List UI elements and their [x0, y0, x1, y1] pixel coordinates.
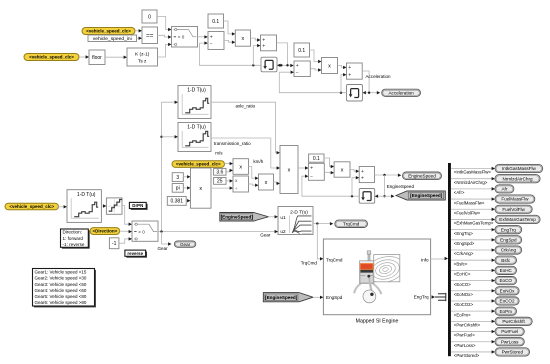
svg-text:floor: floor — [92, 55, 102, 61]
svg-text:TrqCmd: TrqCmd — [301, 261, 318, 266]
goto tag Afr — [495, 185, 514, 193]
from tag <vehicle_speed_clc> 4 — [5, 203, 59, 210]
svg-text:PwrLoss: PwrLoss — [501, 339, 519, 344]
svg-text:-1: reverse: -1: reverse — [63, 242, 85, 247]
svg-text:x: x — [265, 180, 268, 186]
constant 0 — [142, 10, 157, 23]
wire bus row FuelMassFlw — [451, 198, 494, 200]
constant -1 — [109, 238, 119, 249]
annotation gear notes — [34, 270, 96, 308]
svg-text:<Bsfc>: <Bsfc> — [454, 261, 468, 266]
svg-text:EngineSpeed: EngineSpeed — [408, 173, 436, 178]
svg-text:+: + — [262, 43, 265, 49]
subsystem Mapped SI Engine — [323, 239, 430, 315]
svg-text:EngineSpeed: EngineSpeed — [387, 184, 415, 189]
svg-text:PwrStored: PwrStored — [502, 350, 524, 355]
goto tag PwrStored — [495, 348, 530, 356]
product f3 — [334, 162, 350, 177]
wire info — [431, 258, 447, 260]
svg-text:<PwrStored>: <PwrStored> — [454, 353, 480, 358]
wire — [157, 17, 170, 30]
wire — [384, 175, 386, 196]
goto tag EoHC — [495, 266, 517, 274]
wire — [211, 102, 279, 153]
goto tag PwrLoss — [495, 338, 524, 346]
svg-text:<vehicle_speed_clc>: <vehicle_speed_clc> — [86, 29, 131, 34]
wire — [137, 37, 141, 39]
wire bus row IntkGasMassFlw — [451, 168, 494, 170]
wire bus row Afr — [451, 188, 494, 190]
discrete derivative K(z-1)/Ts z — [127, 48, 158, 66]
wire — [277, 64, 280, 67]
wire bus row EoNOx — [451, 290, 494, 292]
svg-text:CrkAng: CrkAng — [501, 248, 517, 253]
goto tag EoCO2 — [495, 297, 519, 305]
goto tag EngTrq — [495, 226, 522, 234]
svg-text:+: + — [296, 63, 299, 69]
svg-text:Gear1: Vehicle speed <15: Gear1: Vehicle speed <15 — [35, 269, 87, 274]
svg-text:Gear2: Vehicle speed <30: Gear2: Vehicle speed <30 — [35, 276, 87, 281]
wire bus row PwrLoss — [451, 341, 494, 343]
svg-text:+: + — [348, 65, 351, 71]
svg-text:transmission_ratio: transmission_ratio — [214, 141, 251, 146]
from tag <vehicle_speed_clc> 3 — [172, 161, 225, 168]
svg-text:1-D T(u): 1-D T(u) — [187, 125, 206, 131]
svg-text:Gear6: Vehicle speed >80: Gear6: Vehicle speed >80 — [35, 300, 87, 305]
unit delay f1 — [261, 57, 277, 72]
annotation reverse — [126, 252, 147, 258]
svg-text:3.6: 3.6 — [216, 170, 223, 176]
svg-text:reverse: reverse — [127, 251, 143, 256]
wire — [226, 170, 232, 171]
lookup table gear 1-D T(u) — [67, 190, 101, 223]
sum block f2 out — [347, 63, 363, 79]
goto tag EoNOx — [495, 287, 519, 295]
constant 25 — [214, 178, 226, 185]
constant 3.6 — [214, 168, 226, 175]
sum block f3 out — [359, 167, 374, 183]
svg-text:pi: pi — [176, 186, 180, 192]
unit delay f3 — [359, 189, 375, 204]
wire bus row EoCO — [451, 280, 494, 282]
wire engtrq — [431, 296, 433, 298]
svg-text:Gear5: Vehicle speed <80: Gear5: Vehicle speed <80 — [35, 294, 87, 299]
svg-text:Gear3: Vehicle speed <50: Gear3: Vehicle speed <50 — [35, 282, 87, 287]
constant 0.1 b — [294, 43, 310, 57]
wire — [251, 38, 260, 40]
svg-text:[EngineSpeed]: [EngineSpeed] — [221, 214, 254, 219]
wire — [211, 187, 232, 189]
svg-text:FuelVolFlw: FuelVolFlw — [502, 207, 525, 212]
wire bus row FuelVolFlw — [451, 208, 494, 210]
svg-text:2-D T(u): 2-D T(u) — [290, 209, 308, 215]
switch Switch — [172, 27, 198, 48]
goto tag TrqCmd — [335, 220, 368, 227]
svg-text:Acceleration: Acceleration — [388, 90, 414, 95]
svg-text:EoHC: EoHC — [500, 268, 513, 273]
wire — [211, 138, 279, 168]
svg-text:<EngSpd>: <EngSpd> — [454, 241, 475, 246]
wire — [268, 216, 276, 218]
wire — [186, 200, 189, 202]
wire — [324, 158, 333, 167]
wire — [162, 102, 177, 231]
wire — [352, 178, 358, 197]
svg-text:x: x — [328, 63, 331, 69]
wire — [375, 195, 378, 198]
svg-text:PwrCrkshft: PwrCrkshft — [502, 319, 525, 324]
svg-text:EoCO2: EoCO2 — [500, 299, 516, 304]
svg-text:0.381: 0.381 — [170, 199, 183, 205]
svg-text:[EngineSpeed]: [EngineSpeed] — [265, 295, 298, 300]
svg-text:<EoNOx>: <EoNOx> — [454, 292, 474, 297]
wire — [338, 66, 346, 68]
wire — [183, 187, 189, 189]
svg-text:x: x — [199, 186, 202, 192]
goto tag NrmlzdAirChrg — [495, 175, 540, 183]
wire — [119, 239, 131, 243]
engine icon legs — [354, 284, 361, 294]
svg-text:<PwrLoss>: <PwrLoss> — [454, 343, 476, 348]
svg-text:<NrmlzdAirChrg>: <NrmlzdAirChrg> — [454, 180, 488, 185]
svg-text:km/h: km/h — [253, 159, 263, 164]
wire — [198, 36, 207, 38]
svg-text:<vehicle_speed_clc>: <vehicle_speed_clc> — [9, 204, 54, 209]
svg-text:−: − — [310, 174, 313, 180]
wire — [120, 230, 131, 232]
wire bus row PwrCrkshft — [451, 320, 494, 322]
wire — [302, 176, 359, 196]
product circumference — [191, 168, 212, 208]
wire — [341, 75, 345, 93]
svg-text:Info: Info — [421, 257, 429, 262]
wire — [279, 72, 346, 93]
from tag [EngineSpeed] 1 — [220, 213, 268, 222]
svg-text:EngSpd: EngSpd — [326, 295, 343, 300]
goto tag EoCO — [495, 276, 517, 284]
svg-text:<EoHC>: <EoHC> — [454, 272, 471, 277]
svg-text:Mapped SI Engine: Mapped SI Engine — [356, 318, 399, 324]
svg-text:EoPm: EoPm — [499, 309, 512, 314]
svg-text:<EoCO2>: <EoCO2> — [454, 302, 474, 307]
wire gear long — [158, 231, 277, 233]
lookup table 2-D T(u) — [278, 207, 313, 235]
goto tag Gear — [174, 241, 195, 247]
wire — [363, 91, 366, 94]
svg-text:Gear4: Vehicle speed <60: Gear4: Vehicle speed <60 — [35, 288, 87, 293]
wire bus row EoPm — [451, 310, 494, 312]
constant 0.1 c — [309, 154, 324, 162]
wire — [224, 40, 234, 42]
svg-text:EngTrq: EngTrq — [414, 295, 429, 300]
engine icon cylinder piston — [360, 261, 374, 284]
svg-text:1-D T(u): 1-D T(u) — [187, 88, 206, 94]
svg-text:axle_ratio: axle_ratio — [236, 104, 256, 109]
math function floor — [89, 50, 105, 65]
wire bus row PwrFuel — [451, 331, 494, 333]
svg-text:EngTrq: EngTrq — [501, 227, 516, 232]
wire — [160, 136, 162, 138]
wire — [350, 170, 358, 172]
constant pi — [172, 184, 183, 193]
svg-text:+: + — [310, 166, 313, 172]
wire — [183, 176, 189, 178]
svg-text:> 0: > 0 — [178, 35, 185, 40]
svg-text:x: x — [288, 167, 291, 173]
goto tag Bsfc — [495, 256, 517, 264]
svg-text:ExhManGasTemp: ExhManGasTemp — [499, 217, 536, 222]
svg-text:0.1: 0.1 — [298, 48, 305, 54]
from tag [EngineSpeed] 2 — [263, 293, 313, 302]
svg-text:25: 25 — [217, 179, 223, 185]
annotation Direction note — [62, 230, 90, 248]
svg-text:0.1: 0.1 — [313, 156, 320, 162]
engine icon spark plug — [367, 251, 371, 254]
wire — [362, 71, 369, 93]
svg-text:<vehicle_speed_clc>: <vehicle_speed_clc> — [29, 55, 74, 60]
wire bus row EngTrq — [451, 229, 494, 231]
svg-text:<Direction>: <Direction> — [92, 229, 117, 234]
sum block f1 out — [261, 35, 277, 51]
svg-text:+: + — [361, 175, 364, 181]
svg-text:K (z-1): K (z-1) — [135, 52, 150, 58]
sum block f3 — [308, 163, 324, 180]
svg-text:1: forward: 1: forward — [63, 236, 84, 241]
svg-text:NrmlzdAirChrg: NrmlzdAirChrg — [502, 176, 533, 181]
svg-text:+: + — [348, 72, 351, 78]
svg-text:x: x — [239, 164, 242, 170]
wire bus row PwrStored — [451, 351, 494, 353]
constant vehicle_speed_ini — [88, 35, 137, 42]
bus selector bar — [448, 163, 451, 356]
svg-text:[EngineSpeed]: [EngineSpeed] — [410, 193, 443, 198]
goto tag FuelVolFlw — [495, 205, 532, 213]
engine icon crankshaft — [369, 276, 372, 294]
wire — [57, 206, 66, 208]
svg-text:x: x — [341, 167, 344, 173]
wire — [313, 296, 322, 298]
svg-text:1-D T(u): 1-D T(u) — [77, 192, 96, 198]
wire — [105, 56, 126, 58]
svg-text:<Afr>: <Afr> — [454, 190, 465, 195]
svg-text:<FuelMassFlw>: <FuelMassFlw> — [454, 200, 485, 205]
svg-text:<vehicle_speed_clc>: <vehicle_speed_clc> — [176, 162, 221, 167]
svg-text:<PwrCrkshft>: <PwrCrkshft> — [454, 323, 481, 328]
wire — [274, 182, 279, 183]
svg-text:FuelMassFlw: FuelMassFlw — [501, 197, 529, 202]
product f2 — [322, 58, 338, 74]
goto tag EoPm — [495, 307, 517, 315]
goto tag PwrCrkshft — [495, 317, 532, 325]
constant 0.381 — [167, 197, 186, 206]
divide block — [233, 176, 249, 192]
svg-text:Gear: Gear — [260, 233, 271, 238]
svg-text:3: 3 — [176, 175, 179, 181]
wire — [249, 167, 258, 179]
goto tag FuelMassFlw — [495, 195, 535, 203]
product engine speed — [280, 146, 298, 194]
wire — [375, 174, 400, 176]
wire — [324, 171, 332, 173]
svg-text:−: − — [296, 70, 299, 76]
goto tag CrkAng — [495, 246, 522, 254]
wire bus row CrkAng — [451, 249, 494, 251]
from tag <vehicle_speed_clc> 1 — [82, 28, 135, 35]
unit delay f2 — [347, 85, 363, 102]
wire — [135, 30, 141, 32]
svg-text:u2: u2 — [280, 229, 286, 234]
wire — [79, 56, 88, 58]
constant 0.1 a — [208, 14, 224, 28]
svg-text:<EoPm>: <EoPm> — [454, 312, 471, 317]
svg-text:+: + — [361, 169, 364, 175]
sum block f2 — [294, 61, 310, 77]
sum block f1 — [208, 32, 224, 50]
goto tag IntkGasMassFlw — [495, 164, 543, 172]
wire — [310, 50, 321, 62]
goto tag EngineSpeed — [403, 172, 442, 180]
svg-text:EoCO: EoCO — [499, 278, 512, 283]
wire — [310, 69, 320, 70]
svg-text:m/s: m/s — [215, 151, 223, 156]
svg-text:Bsfc: Bsfc — [501, 258, 511, 263]
wire — [122, 206, 131, 225]
svg-text:<IntkGasMassFlw>: <IntkGasMassFlw> — [454, 170, 492, 175]
quantizer — [106, 198, 122, 214]
wire — [226, 180, 232, 182]
svg-text:TrqCmd: TrqCmd — [343, 221, 360, 226]
svg-text:<EngTrq>: <EngTrq> — [454, 231, 474, 236]
wire — [200, 43, 262, 65]
wire — [162, 232, 171, 244]
relational operator == — [142, 27, 158, 44]
svg-text:<ExhManGasTemp>: <ExhManGasTemp> — [454, 221, 494, 226]
svg-text:Direction:: Direction: — [63, 230, 82, 235]
wire — [249, 184, 258, 185]
from tag <Direction> — [90, 228, 120, 235]
wire — [277, 43, 288, 65]
wire — [225, 163, 232, 165]
svg-text:EoNOx: EoNOx — [500, 288, 516, 293]
wire — [253, 46, 259, 66]
constant 3 — [172, 173, 183, 182]
wire bus row EngSpd — [451, 239, 494, 241]
wire — [224, 21, 234, 34]
wire bus row NrmlzdAirChrg — [451, 178, 494, 180]
svg-text:<CrkAng>: <CrkAng> — [454, 251, 474, 256]
svg-text:-1: -1 — [112, 241, 117, 247]
product f1 — [235, 30, 250, 46]
wire — [313, 223, 332, 225]
goto tag ExhManGasTemp — [495, 215, 540, 223]
wire bus row ExhManGasTemp — [451, 218, 494, 220]
wire — [158, 44, 171, 57]
svg-text:DrPN: DrPN — [132, 203, 143, 208]
svg-text:u1: u1 — [280, 215, 286, 220]
svg-text:<FuelVolFlw>: <FuelVolFlw> — [454, 210, 481, 215]
lookup table axle 1-D T(u) — [178, 86, 211, 119]
svg-text:−: − — [210, 41, 213, 47]
svg-text:vehicle_speed_ini: vehicle_speed_ini — [93, 36, 132, 42]
svg-text:<PwrFuel>: <PwrFuel> — [454, 333, 475, 338]
svg-text:Acceleration: Acceleration — [366, 74, 391, 79]
svg-text:Gear: Gear — [158, 246, 169, 251]
svg-text:<EoCO>: <EoCO> — [454, 282, 471, 287]
svg-text:Gear: Gear — [180, 242, 191, 247]
switch gear — [132, 221, 158, 241]
from tag <vehicle_speed_clc> 2 — [24, 54, 79, 61]
svg-text:IntkGasMassFlw: IntkGasMassFlw — [502, 166, 537, 171]
lookup table transmission 1-D T(u) — [178, 123, 211, 152]
svg-text:+: + — [210, 35, 213, 41]
wire bus row EoHC — [451, 269, 494, 271]
wire bus row EoCO2 — [451, 300, 494, 302]
svg-text:0.1: 0.1 — [212, 19, 219, 25]
product C — [259, 174, 274, 190]
svg-text:Afr: Afr — [501, 187, 507, 192]
wire bus row Bsfc — [451, 259, 494, 261]
svg-text:TrqCmd: TrqCmd — [326, 257, 343, 262]
svg-text:EngSpd: EngSpd — [500, 237, 517, 242]
goto tag EngSpd — [495, 236, 522, 244]
product m/s to km/h — [233, 159, 249, 175]
wire — [298, 167, 307, 169]
annotation DrPN — [131, 204, 148, 210]
wire — [158, 35, 171, 37]
svg-text:x: x — [242, 36, 245, 42]
wire — [101, 205, 105, 207]
goto tag [EngineSpeed] — [396, 191, 445, 200]
svg-text:Ts z: Ts z — [138, 58, 147, 64]
svg-text:PwrFuel: PwrFuel — [501, 329, 518, 334]
svg-text:0: 0 — [148, 14, 151, 20]
svg-text:> 0: > 0 — [138, 229, 145, 234]
wire — [317, 224, 322, 259]
svg-text:==: == — [146, 32, 154, 39]
goto tag PwrFuel — [495, 327, 524, 335]
terminator EngTrq — [435, 293, 446, 301]
goto tag Acceleration — [382, 89, 421, 96]
